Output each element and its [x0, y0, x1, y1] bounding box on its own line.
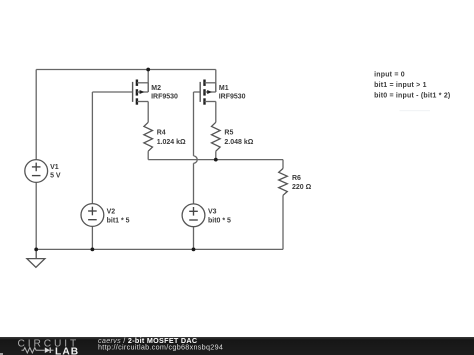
voltage source V3	[182, 204, 205, 227]
node: junction dot R5 bottom / mid rail	[214, 158, 218, 162]
wire V3 bottom to rail	[193, 227, 195, 250]
transistor M2	[133, 80, 149, 105]
svg-text:R4: R4	[157, 130, 166, 137]
svg-text:R6: R6	[292, 175, 301, 182]
svg-text:V1: V1	[50, 164, 59, 171]
svg-text:LAB: LAB	[55, 346, 79, 355]
wire M2 source vertical	[147, 70, 149, 93]
footer corner artifact	[0, 353, 3, 355]
resistor R5	[212, 122, 221, 151]
svg-text:R5: R5	[224, 130, 233, 137]
wire hop over mid rail	[194, 156, 198, 163]
node: junction dot M2 source / top rail	[146, 68, 150, 72]
wire V2 bottom to rail	[91, 226, 93, 249]
svg-text:input = 0: input = 0	[374, 71, 405, 78]
svg-text:bit0 = input - (bit1 * 2): bit0 = input - (bit1 * 2)	[374, 92, 450, 99]
footer bar	[0, 337, 474, 355]
node: junction dot V3 bottom / bottom rail	[192, 248, 196, 252]
logo diode symbol	[45, 347, 50, 353]
faint artifact line	[400, 110, 431, 111]
wire left rail lower (V1 to ground rail)	[35, 182, 37, 249]
svg-text:bit1 = input > 1: bit1 = input > 1	[374, 82, 427, 89]
node: junction dot V2 bottom / bottom rail	[91, 248, 95, 252]
wire V3 column upper	[193, 92, 195, 156]
svg-text:IRF9530: IRF9530	[219, 94, 246, 101]
svg-text:http://circuitlab.com/cgb68xns: http://circuitlab.com/cgb68xnsbq294	[98, 342, 223, 351]
wire R6 bottom to rail	[282, 195, 284, 249]
node: junction dot ground / bottom rail	[34, 248, 38, 252]
svg-text:IRF9530: IRF9530	[151, 94, 178, 101]
wire M1 drain to R5	[215, 102, 217, 123]
wire R5 bottom to mid rail	[215, 151, 217, 159]
wire top rail	[36, 69, 216, 71]
wire M2 gate horizontal	[92, 91, 132, 93]
wire M2 drain to R4	[147, 102, 149, 123]
ground	[27, 249, 45, 267]
wire M1 gate corner horizontal	[194, 91, 201, 93]
resistor R4	[144, 122, 153, 151]
wire V2 column up to M2 gate level	[91, 92, 93, 204]
wire mid rail	[148, 159, 283, 161]
wire bottom rail	[36, 248, 283, 250]
svg-text:V3: V3	[208, 209, 217, 216]
svg-text:bit1 * 5: bit1 * 5	[107, 217, 130, 224]
transistor M1	[200, 80, 216, 105]
voltage source V1	[25, 160, 48, 183]
resistor R6	[279, 169, 288, 196]
svg-text:M2: M2	[151, 85, 161, 92]
wire R6 top stub	[282, 160, 284, 169]
voltage source V2	[81, 204, 104, 227]
svg-text:V2: V2	[107, 209, 116, 216]
svg-text:M1: M1	[219, 85, 229, 92]
logo resistor symbol	[22, 347, 45, 352]
svg-text:bit0 * 5: bit0 * 5	[208, 217, 231, 224]
svg-text:5 V: 5 V	[50, 172, 61, 179]
wire M1 source vertical	[215, 70, 217, 93]
wire V3 column lower	[193, 163, 195, 204]
svg-text:220 Ω: 220 Ω	[292, 184, 312, 191]
wire left rail upper (top rail to V1)	[35, 70, 37, 160]
svg-text:2.048 kΩ: 2.048 kΩ	[224, 139, 253, 146]
svg-text:1.024 kΩ: 1.024 kΩ	[157, 139, 186, 146]
wire R4 bottom to mid rail	[147, 151, 149, 159]
